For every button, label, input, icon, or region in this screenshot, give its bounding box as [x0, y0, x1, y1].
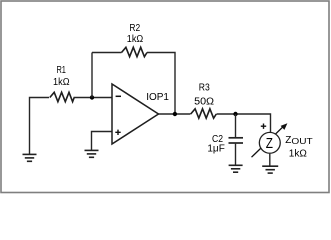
resistor R1 — [50, 92, 74, 101]
svg-text:IOP1: IOP1 — [146, 92, 169, 103]
wire: op-amp output to R3 — [159, 113, 191, 115]
svg-text:R3: R3 — [199, 83, 210, 94]
wire: R2 left horizontal — [92, 52, 122, 54]
svg-text:Z: Z — [266, 136, 273, 152]
op-amp IOP1 — [112, 84, 159, 144]
svg-text:1kΩ: 1kΩ — [127, 34, 144, 45]
meter Z variable arrowhead — [281, 123, 288, 130]
svg-text:1kΩ: 1kΩ — [289, 149, 308, 160]
meter plus polarity sign — [261, 124, 266, 129]
svg-text:R1: R1 — [56, 65, 66, 76]
ground (op-amp non-inverting input) — [85, 150, 99, 157]
impedance meter Z (circle) — [259, 132, 280, 153]
wire: R1 to op-amp inverting input — [74, 97, 113, 99]
junction: C2 node — [233, 112, 237, 116]
resistor R2 — [122, 47, 148, 56]
ground (under Z meter) — [262, 166, 278, 173]
junction: output node — [173, 112, 177, 116]
meter Z variable arrow shaft — [252, 126, 284, 157]
svg-text:1kΩ: 1kΩ — [53, 77, 70, 88]
junction: inverting input node — [90, 95, 94, 99]
wire: R3 to Z meter (horizontal and down) — [217, 114, 271, 132]
capacitor C2 — [229, 138, 244, 143]
svg-text:R2: R2 — [129, 23, 140, 34]
svg-text:1μF: 1μF — [207, 144, 224, 155]
op-amp inverting input pin minus sign — [116, 95, 121, 97]
wire: Z meter bottom lead — [269, 154, 271, 166]
wire: C2 bottom lead — [235, 144, 237, 166]
ground (under C2) — [229, 165, 243, 172]
svg-text:50Ω: 50Ω — [194, 96, 215, 107]
ground (left, input) — [23, 154, 37, 161]
wire: C2 top lead — [235, 114, 237, 137]
wire: feedback left vertical — [91, 53, 93, 98]
resistor R3 — [191, 109, 217, 118]
op-amp non-inverting input pin plus sign — [115, 130, 120, 135]
wire: input node left (vertical to ground, horizontal to R1) — [30, 98, 50, 155]
wire: non-inverting input (ground to op-amp) — [92, 132, 113, 151]
wire: R2 right horizontal and down to output node — [147, 53, 175, 115]
svg-text:ZOUT: ZOUT — [285, 135, 312, 146]
